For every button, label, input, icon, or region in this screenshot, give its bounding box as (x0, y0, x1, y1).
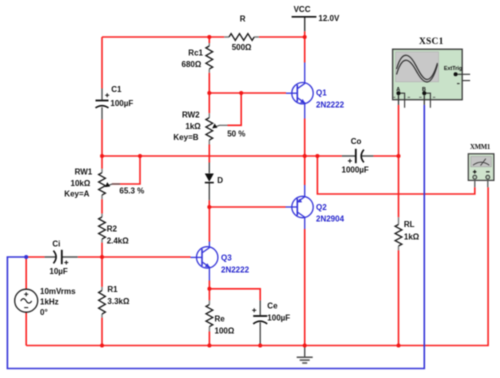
svg-text:Q3: Q3 (221, 254, 232, 263)
wire ground rail bottom (26, 187, 488, 345)
transistor Q1 2N2222 NPN (286, 63, 313, 119)
node input blue junction (24, 255, 28, 259)
resistor Rc1 (182, 43, 213, 73)
svg-text:100Ω: 100Ω (215, 327, 235, 336)
svg-text:10µF: 10µF (49, 267, 68, 276)
svg-text:Rc1: Rc1 (188, 49, 203, 58)
svg-text:Ce: Ce (267, 302, 278, 311)
svg-text:0°: 0° (40, 308, 48, 317)
svg-text:1kΩ: 1kΩ (404, 233, 420, 242)
svg-text:C1: C1 (111, 85, 122, 94)
wire RW2 wiper to rail (228, 93, 242, 125)
svg-text:RL: RL (404, 220, 415, 229)
svg-text:50 %: 50 % (227, 130, 245, 139)
source V1 10mVrms (15, 287, 76, 317)
resistor R (224, 15, 258, 53)
resistor R1 (99, 285, 130, 318)
svg-text:2N2904: 2N2904 (316, 215, 345, 224)
wire Q1 Q2 column (304, 31, 306, 345)
svg-text:ExtTrig: ExtTrig (444, 66, 462, 72)
svg-text:100µF: 100µF (267, 314, 290, 323)
transistor Q2 2N2904 PNP (286, 185, 314, 229)
svg-text:65.3 %: 65.3 % (119, 186, 144, 195)
wire scope A / RL column (398, 105, 400, 346)
capacitor Ci (45, 239, 78, 275)
svg-text:2.4kΩ: 2.4kΩ (107, 236, 130, 245)
wire blue input loop to scope B (7, 105, 424, 369)
svg-text:680Ω: 680Ω (182, 60, 202, 69)
wire Rc1 column (208, 37, 210, 93)
wire input y=257 (26, 256, 190, 258)
svg-text:1kΩ: 1kΩ (185, 122, 201, 131)
svg-text:Ci: Ci (52, 239, 60, 248)
svg-text:XMM1: XMM1 (470, 144, 491, 151)
transistor Q3 2N2222 NPN (191, 242, 218, 281)
svg-text:Q2: Q2 (316, 203, 327, 212)
capacitor Co (342, 137, 374, 174)
wire VCC top rail (102, 37, 305, 156)
svg-text:2N2222: 2N2222 (221, 266, 250, 275)
potentiometer RW1 (64, 168, 144, 200)
svg-text:Key=A: Key=A (64, 189, 89, 198)
svg-text:Q1: Q1 (316, 89, 327, 98)
svg-text:Re: Re (215, 315, 226, 324)
svg-text:12.0V: 12.0V (318, 14, 340, 23)
svg-text:VCC: VCC (294, 5, 311, 14)
svg-text:RW1: RW1 (75, 168, 93, 177)
svg-text:10mVrms: 10mVrms (40, 287, 76, 296)
resistor R2 (99, 214, 130, 246)
diode D (205, 163, 224, 201)
svg-text:2N2222: 2N2222 (316, 101, 345, 110)
VCC supply (292, 5, 340, 31)
junction node dots (100, 35, 401, 348)
oscilloscope XSC1 (393, 37, 471, 108)
svg-text:R1: R1 (107, 285, 118, 294)
potentiometer RW2 (173, 111, 245, 145)
wire RW2 column (208, 93, 210, 207)
svg-text:10kΩ: 10kΩ (71, 179, 91, 188)
wire V1 leads (25, 257, 27, 346)
capacitor C1 (96, 85, 134, 120)
svg-text:Key=B: Key=B (173, 133, 198, 142)
wire RW1 wiper to rail (112, 156, 140, 184)
capacitor Ce (252, 300, 290, 343)
multimeter XMM1 (468, 144, 494, 187)
svg-text:D: D (217, 176, 223, 185)
wire mid rail y=156 (102, 155, 399, 157)
wire Ce branch (209, 289, 260, 346)
svg-text:RW2: RW2 (182, 111, 200, 120)
wire RW1 column (101, 156, 103, 346)
svg-text:XSC1: XSC1 (419, 37, 444, 47)
wire Re column (208, 281, 210, 346)
svg-text:1kHz: 1kHz (40, 297, 59, 306)
svg-text:1000µF: 1000µF (342, 165, 369, 174)
svg-text:3.3kΩ: 3.3kΩ (107, 297, 130, 306)
svg-text:500Ω: 500Ω (232, 43, 252, 52)
svg-text:R2: R2 (107, 224, 118, 233)
wire base rail y=93 (209, 92, 286, 94)
ground (297, 346, 313, 364)
wire Q3 collector (208, 207, 210, 242)
wire output to XMM1 (317, 156, 474, 194)
wire Q2 base rail y=207 (209, 206, 285, 208)
resistor Re (206, 300, 235, 335)
svg-text:Co: Co (351, 137, 362, 146)
svg-text:R: R (240, 15, 246, 24)
svg-text:100µF: 100µF (110, 99, 133, 108)
resistor RL (395, 217, 420, 250)
